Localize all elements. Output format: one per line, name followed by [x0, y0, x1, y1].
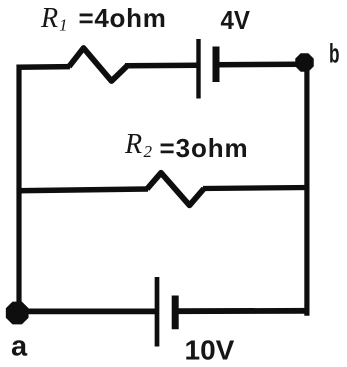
wire: top branch middle segment: [125, 62, 198, 68]
value label =3ohm: [160, 133, 249, 163]
label 10V: [185, 335, 235, 366]
wire: middle branch left segment: [17, 189, 149, 191]
label b: [329, 39, 340, 69]
label R1: [40, 3, 68, 34]
svg-text:1: 1: [59, 15, 68, 34]
battery 10V long plate: [155, 277, 160, 347]
svg-text:a: a: [11, 331, 28, 363]
wire: bottom branch left segment: [17, 308, 156, 314]
wire: top branch left segment: [17, 64, 71, 70]
label 4V: [221, 5, 251, 35]
label R2: [124, 129, 153, 161]
svg-text:R: R: [124, 129, 142, 160]
wire: top branch right segment: [216, 61, 298, 67]
battery 10V short plate: [172, 296, 179, 330]
svg-text:4V: 4V: [221, 5, 251, 35]
node b: [295, 53, 313, 71]
node a: [6, 302, 29, 325]
wire: right rail: [304, 63, 309, 316]
svg-text:2: 2: [144, 142, 153, 161]
wire: bottom branch right segment: [175, 308, 310, 314]
svg-text:=3ohm: =3ohm: [160, 133, 249, 163]
svg-text:R: R: [40, 3, 58, 34]
resistor R1: [69, 48, 127, 81]
wire: middle branch right segment: [203, 188, 310, 189]
svg-text:=4ohm: =4ohm: [79, 3, 167, 33]
svg-text:b: b: [329, 39, 340, 69]
battery 4V short plate: [213, 47, 220, 83]
resistor R2: [147, 173, 204, 206]
label a: [11, 331, 28, 363]
wire: left rail: [16, 65, 21, 304]
value label =4ohm: [79, 3, 167, 33]
svg-text:10V: 10V: [185, 335, 235, 366]
battery 4V long plate: [196, 39, 200, 99]
